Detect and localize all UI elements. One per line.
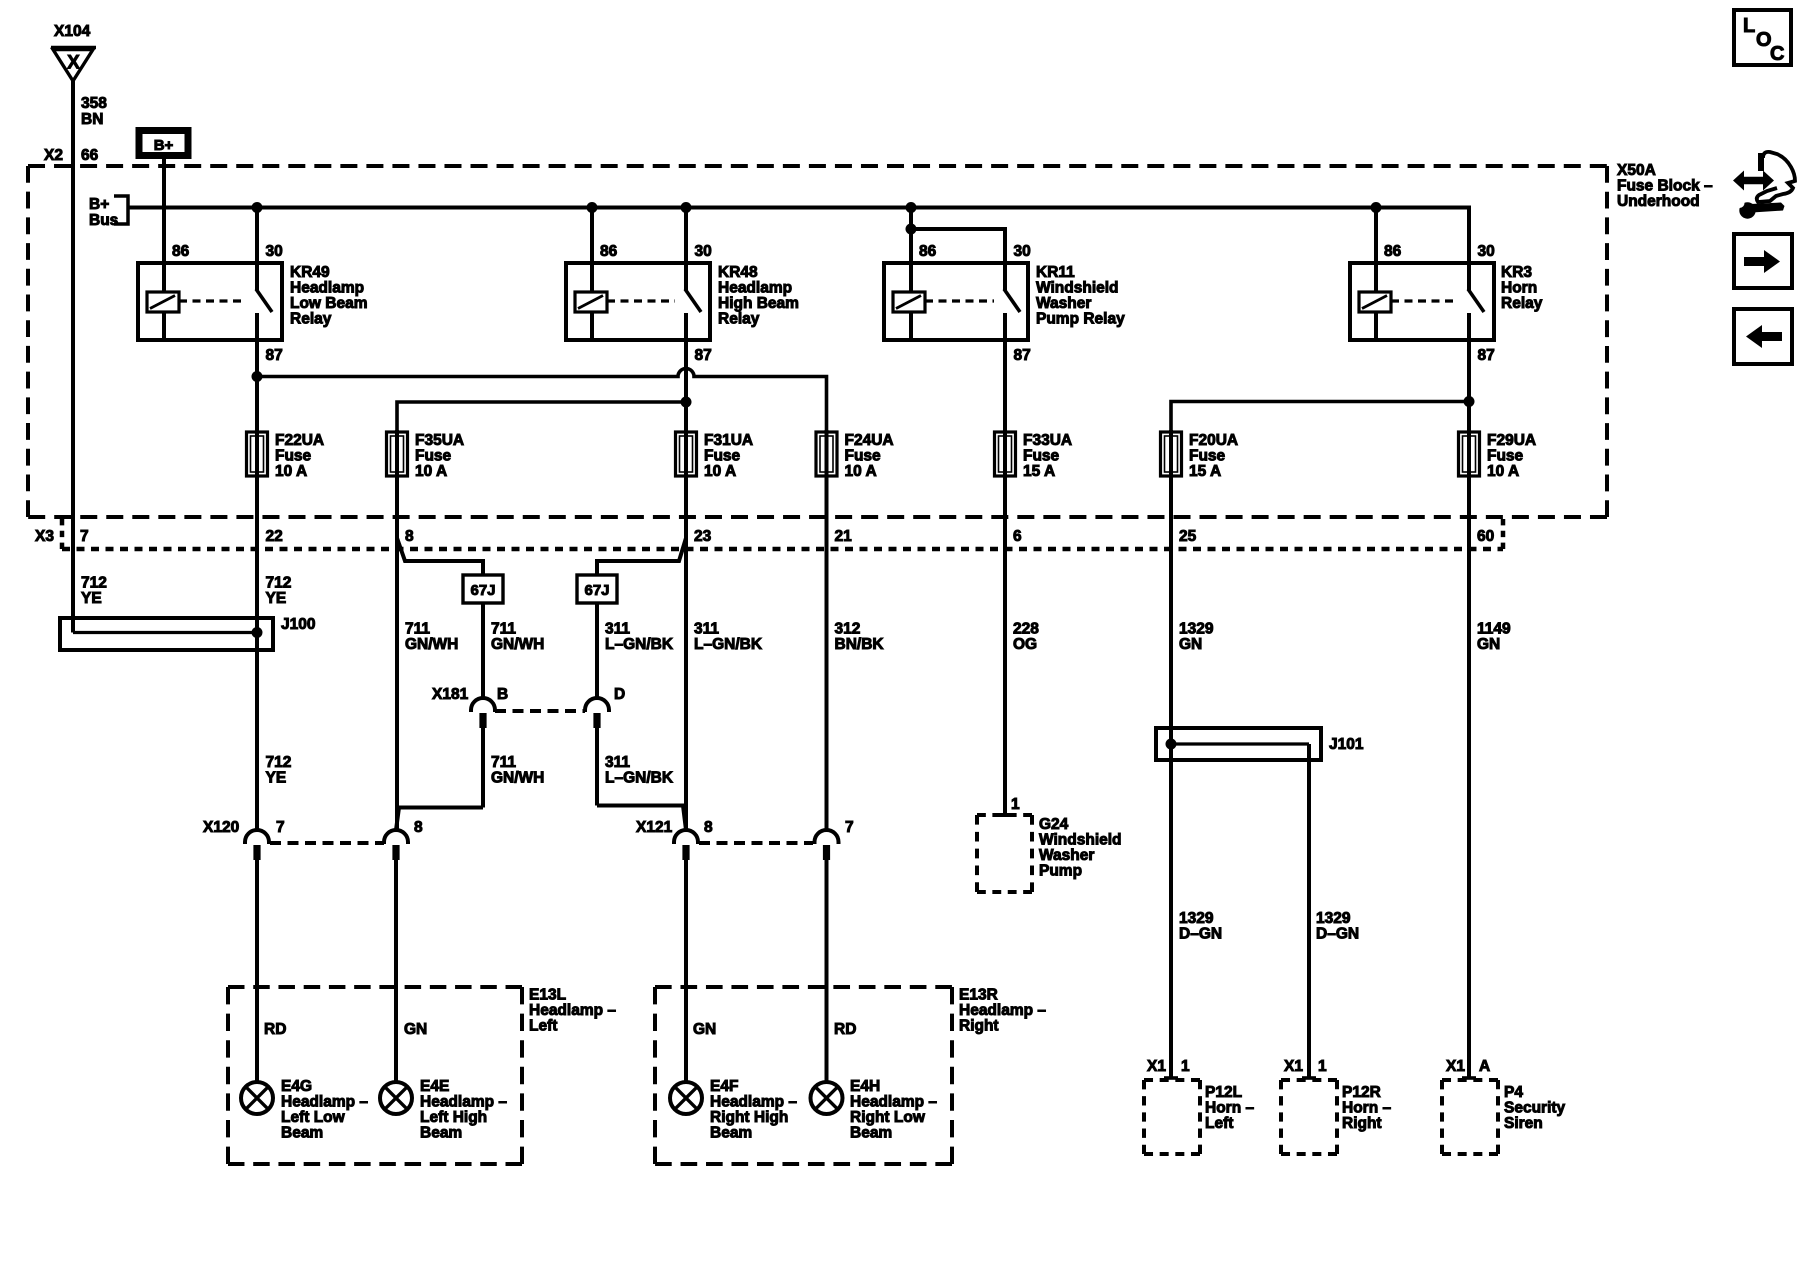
svg-text:Underhood: Underhood: [1617, 193, 1700, 210]
svg-text:B+: B+: [89, 196, 109, 213]
svg-text:60: 60: [1477, 528, 1494, 545]
svg-text:GN: GN: [1179, 636, 1202, 653]
svg-text:711: 711: [405, 621, 430, 638]
svg-text:KR11: KR11: [1036, 264, 1075, 281]
svg-text:X50A: X50A: [1617, 162, 1656, 179]
svg-text:7: 7: [276, 819, 285, 836]
svg-text:Left: Left: [1205, 1115, 1233, 1132]
svg-text:J100: J100: [281, 616, 315, 633]
svg-text:10 A: 10 A: [415, 463, 447, 480]
svg-text:RD: RD: [264, 1021, 286, 1038]
svg-text:OG: OG: [1013, 636, 1037, 653]
svg-text:86: 86: [600, 243, 618, 260]
svg-text:X1: X1: [1446, 1058, 1465, 1075]
svg-text:Security: Security: [1504, 1100, 1566, 1117]
svg-text:Horn –: Horn –: [1205, 1100, 1254, 1117]
svg-text:312: 312: [835, 621, 861, 638]
svg-text:86: 86: [172, 243, 190, 260]
svg-text:66: 66: [81, 147, 99, 164]
svg-text:Fuse: Fuse: [1189, 448, 1226, 465]
svg-text:Fuse: Fuse: [704, 448, 741, 465]
svg-text:BN: BN: [81, 111, 103, 128]
svg-text:Fuse: Fuse: [275, 448, 312, 465]
svg-text:Pump: Pump: [1039, 863, 1082, 880]
svg-text:Headlamp –: Headlamp –: [959, 1002, 1046, 1019]
svg-text:8: 8: [414, 819, 423, 836]
svg-text:KR3: KR3: [1501, 264, 1532, 281]
svg-text:311: 311: [605, 621, 630, 638]
svg-text:Left: Left: [529, 1018, 557, 1035]
svg-text:B+: B+: [154, 137, 174, 154]
svg-text:D–GN: D–GN: [1316, 926, 1359, 943]
svg-text:1: 1: [1011, 796, 1020, 813]
svg-text:Fuse: Fuse: [1487, 448, 1524, 465]
svg-text:C: C: [1770, 43, 1784, 65]
svg-text:30: 30: [695, 243, 712, 260]
svg-text:A: A: [1479, 1058, 1490, 1075]
svg-text:F29UA: F29UA: [1487, 432, 1536, 449]
svg-text:X: X: [67, 53, 80, 74]
svg-text:311: 311: [694, 621, 719, 638]
svg-text:Pump Relay: Pump Relay: [1036, 311, 1125, 328]
svg-text:86: 86: [1384, 243, 1402, 260]
svg-text:1: 1: [1318, 1058, 1327, 1075]
svg-text:15 A: 15 A: [1023, 463, 1055, 480]
svg-text:711: 711: [491, 621, 516, 638]
svg-text:23: 23: [694, 528, 712, 545]
svg-text:D–GN: D–GN: [1179, 926, 1222, 943]
svg-text:Left Low: Left Low: [281, 1109, 346, 1126]
svg-text:Beam: Beam: [420, 1125, 462, 1142]
svg-text:311: 311: [605, 754, 630, 771]
svg-text:Horn –: Horn –: [1342, 1100, 1391, 1117]
svg-text:10 A: 10 A: [845, 463, 877, 480]
svg-text:E4E: E4E: [420, 1078, 449, 1095]
svg-text:87: 87: [266, 347, 283, 364]
svg-text:67J: 67J: [584, 582, 609, 599]
svg-text:GN/WH: GN/WH: [405, 636, 458, 653]
svg-text:6: 6: [1013, 528, 1022, 545]
svg-text:L: L: [1743, 15, 1755, 37]
svg-text:30: 30: [1478, 243, 1495, 260]
svg-text:10 A: 10 A: [704, 463, 736, 480]
svg-text:30: 30: [1014, 243, 1031, 260]
svg-text:Fuse: Fuse: [845, 448, 882, 465]
svg-text:RD: RD: [834, 1021, 856, 1038]
svg-text:25: 25: [1179, 528, 1197, 545]
svg-text:87: 87: [1478, 347, 1495, 364]
svg-text:GN: GN: [1477, 636, 1500, 653]
svg-text:Beam: Beam: [710, 1125, 752, 1142]
svg-text:Relay: Relay: [1501, 295, 1543, 312]
svg-text:Windshield: Windshield: [1036, 280, 1119, 297]
svg-text:Low Beam: Low Beam: [290, 295, 368, 312]
svg-text:L–GN/BK: L–GN/BK: [605, 770, 674, 787]
svg-text:Right Low: Right Low: [850, 1109, 926, 1126]
svg-text:X181: X181: [432, 686, 469, 703]
svg-text:358: 358: [81, 95, 107, 112]
svg-text:B: B: [497, 686, 508, 703]
svg-text:X104: X104: [54, 23, 91, 40]
svg-text:P4: P4: [1504, 1084, 1523, 1101]
svg-text:711: 711: [491, 754, 516, 771]
svg-text:86: 86: [919, 243, 937, 260]
svg-text:7: 7: [80, 528, 89, 545]
svg-text:Headlamp: Headlamp: [290, 280, 364, 297]
svg-text:Headlamp: Headlamp: [718, 280, 792, 297]
svg-text:Fuse: Fuse: [1023, 448, 1060, 465]
svg-text:Relay: Relay: [290, 311, 332, 328]
svg-text:1329: 1329: [1179, 910, 1214, 927]
svg-text:15 A: 15 A: [1189, 463, 1221, 480]
svg-text:L–GN/BK: L–GN/BK: [605, 636, 674, 653]
svg-text:10 A: 10 A: [275, 463, 307, 480]
svg-text:22: 22: [266, 528, 283, 545]
svg-text:Bus: Bus: [89, 212, 118, 229]
svg-text:87: 87: [695, 347, 712, 364]
svg-text:Washer: Washer: [1036, 295, 1091, 312]
svg-text:X3: X3: [35, 528, 54, 545]
svg-text:87: 87: [1014, 347, 1031, 364]
svg-text:E13R: E13R: [959, 987, 998, 1004]
svg-text:YE: YE: [266, 770, 287, 787]
svg-text:1: 1: [1181, 1058, 1190, 1075]
svg-text:X1: X1: [1147, 1058, 1166, 1075]
svg-text:D: D: [614, 686, 625, 703]
svg-text:E4F: E4F: [710, 1078, 738, 1095]
svg-text:GN: GN: [404, 1021, 427, 1038]
svg-text:Left High: Left High: [420, 1109, 487, 1126]
svg-text:Washer: Washer: [1039, 847, 1094, 864]
svg-text:GN/WH: GN/WH: [491, 636, 544, 653]
svg-text:1329: 1329: [1316, 910, 1351, 927]
svg-text:E13L: E13L: [529, 987, 566, 1004]
svg-text:X121: X121: [636, 819, 673, 836]
svg-text:Headlamp –: Headlamp –: [850, 1094, 937, 1111]
svg-text:F33UA: F33UA: [1023, 432, 1072, 449]
svg-text:Beam: Beam: [281, 1125, 323, 1142]
svg-text:P12R: P12R: [1342, 1084, 1381, 1101]
svg-text:7: 7: [845, 819, 854, 836]
svg-text:F22UA: F22UA: [275, 432, 324, 449]
svg-text:1149: 1149: [1477, 621, 1511, 638]
svg-text:Fuse Block –: Fuse Block –: [1617, 178, 1713, 195]
svg-text:Windshield: Windshield: [1039, 832, 1122, 849]
svg-text:Fuse: Fuse: [415, 448, 452, 465]
svg-text:712: 712: [81, 575, 107, 592]
svg-text:712: 712: [266, 575, 292, 592]
svg-text:Beam: Beam: [850, 1125, 892, 1142]
svg-text:30: 30: [266, 243, 283, 260]
svg-text:Siren: Siren: [1504, 1115, 1543, 1132]
svg-text:10 A: 10 A: [1487, 463, 1519, 480]
svg-text:E4G: E4G: [281, 1078, 312, 1095]
svg-text:P12L: P12L: [1205, 1084, 1242, 1101]
svg-text:L–GN/BK: L–GN/BK: [694, 636, 763, 653]
svg-text:67J: 67J: [470, 582, 495, 599]
svg-text:8: 8: [704, 819, 713, 836]
svg-text:Right: Right: [1342, 1115, 1382, 1132]
svg-text:Headlamp –: Headlamp –: [710, 1094, 797, 1111]
svg-text:21: 21: [835, 528, 853, 545]
svg-text:F24UA: F24UA: [845, 432, 894, 449]
svg-text:F20UA: F20UA: [1189, 432, 1238, 449]
svg-text:1329: 1329: [1179, 621, 1214, 638]
svg-text:F31UA: F31UA: [704, 432, 753, 449]
svg-text:Horn: Horn: [1501, 280, 1537, 297]
svg-text:High Beam: High Beam: [718, 295, 799, 312]
svg-text:YE: YE: [266, 590, 287, 607]
svg-text:X120: X120: [203, 819, 239, 836]
svg-text:228: 228: [1013, 621, 1039, 638]
svg-text:712: 712: [266, 754, 292, 771]
svg-text:KR49: KR49: [290, 264, 330, 281]
svg-text:Right: Right: [959, 1018, 999, 1035]
svg-text:YE: YE: [81, 590, 102, 607]
svg-text:G24: G24: [1039, 816, 1069, 833]
svg-text:BN/BK: BN/BK: [835, 636, 885, 653]
svg-text:Headlamp –: Headlamp –: [281, 1094, 368, 1111]
svg-text:X1: X1: [1284, 1058, 1303, 1075]
svg-text:Relay: Relay: [718, 311, 760, 328]
svg-text:Headlamp –: Headlamp –: [529, 1002, 616, 1019]
svg-text:GN/WH: GN/WH: [491, 770, 544, 787]
svg-text:Headlamp –: Headlamp –: [420, 1094, 507, 1111]
svg-text:8: 8: [405, 528, 414, 545]
svg-text:GN: GN: [693, 1021, 716, 1038]
svg-text:J101: J101: [1329, 736, 1364, 753]
svg-text:X2: X2: [44, 147, 63, 164]
svg-text:Right High: Right High: [710, 1109, 788, 1126]
svg-text:F35UA: F35UA: [415, 432, 464, 449]
svg-text:KR48: KR48: [718, 264, 758, 281]
svg-text:E4H: E4H: [850, 1078, 880, 1095]
